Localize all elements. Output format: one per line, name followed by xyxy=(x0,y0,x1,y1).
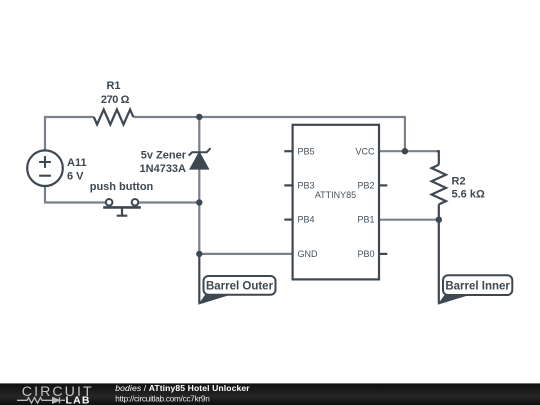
svg-text:bodies / ATtiny85 Hotel Unlock: bodies / ATtiny85 Hotel Unlocker xyxy=(115,383,250,393)
resistor R1 xyxy=(94,110,134,125)
resistor R2 xyxy=(432,165,446,205)
pin PB0 stub xyxy=(379,253,387,255)
wire GND node to IC GND pin xyxy=(199,253,292,255)
CircuitLab logo schematic glyph xyxy=(17,397,65,403)
wire source to push button xyxy=(44,201,106,203)
svg-text:PB1: PB1 xyxy=(357,215,374,225)
svg-text:push button: push button xyxy=(90,181,154,193)
pin PB3 stub xyxy=(284,184,292,186)
junction zener top node xyxy=(196,114,202,120)
svg-text:GND: GND xyxy=(298,249,319,259)
wire R2 top lead xyxy=(437,151,439,165)
junction VCC node xyxy=(402,148,408,154)
zener diode D1 xyxy=(189,148,211,169)
svg-text:A11: A11 xyxy=(67,157,87,169)
svg-text:Barrel Inner: Barrel Inner xyxy=(445,280,510,292)
svg-text:1N4733A: 1N4733A xyxy=(140,163,187,175)
wire R2 bottom lead xyxy=(438,204,440,219)
svg-text:PB3: PB3 xyxy=(298,181,315,191)
voltage source A11 xyxy=(27,150,63,186)
svg-text:PB5: PB5 xyxy=(298,146,315,156)
svg-text:5v Zener: 5v Zener xyxy=(141,150,187,162)
wire VCC pin to R2 top corner xyxy=(379,150,438,152)
footer bar xyxy=(0,383,540,405)
pin PB2 stub xyxy=(379,184,387,186)
wire source positive lead xyxy=(44,117,46,150)
svg-text:R2: R2 xyxy=(452,176,466,188)
svg-text:6 V: 6 V xyxy=(67,171,84,183)
wire PB1 pin to R2 node xyxy=(379,219,439,221)
svg-text:LAB: LAB xyxy=(66,395,91,405)
junction push button zener node xyxy=(196,199,202,205)
svg-text:270 Ω: 270 Ω xyxy=(101,94,130,106)
pin PB4 stub xyxy=(284,219,292,221)
junction PB1 R2 node xyxy=(436,217,442,223)
svg-text:http://circuitlab.com/cc7kr9n: http://circuitlab.com/cc7kr9n xyxy=(115,395,210,404)
wire top-left to resistor R1 xyxy=(44,116,94,118)
svg-text:5.6 kΩ: 5.6 kΩ xyxy=(452,189,485,201)
push button SW1 xyxy=(103,199,141,216)
pin PB5 stub xyxy=(284,150,292,152)
wire zener node to GND node xyxy=(198,203,200,254)
junction GND node xyxy=(196,251,202,257)
wire down to VCC node xyxy=(404,116,406,151)
svg-text:PB4: PB4 xyxy=(298,215,315,225)
node flag Barrel Outer xyxy=(199,276,275,304)
wire Barrel Outer flag stem xyxy=(198,254,200,304)
wire Barrel Inner flag stem xyxy=(438,220,440,304)
svg-text:ATTINY85: ATTINY85 xyxy=(315,190,356,200)
wire R1 to VCC corner xyxy=(133,116,406,118)
svg-text:VCC: VCC xyxy=(355,146,375,156)
svg-text:Barrel Outer: Barrel Outer xyxy=(206,280,274,292)
wire zener cathode lead xyxy=(198,116,200,152)
svg-text:PB2: PB2 xyxy=(357,181,374,191)
node flag Barrel Inner xyxy=(439,275,513,304)
wire zener anode lead xyxy=(198,169,200,203)
svg-text:PB0: PB0 xyxy=(357,249,374,259)
wire source negative lead xyxy=(44,187,46,203)
wire push button to zener node xyxy=(138,201,199,203)
IC U1 ATTINY85 body xyxy=(284,125,387,280)
svg-text:R1: R1 xyxy=(106,80,120,92)
